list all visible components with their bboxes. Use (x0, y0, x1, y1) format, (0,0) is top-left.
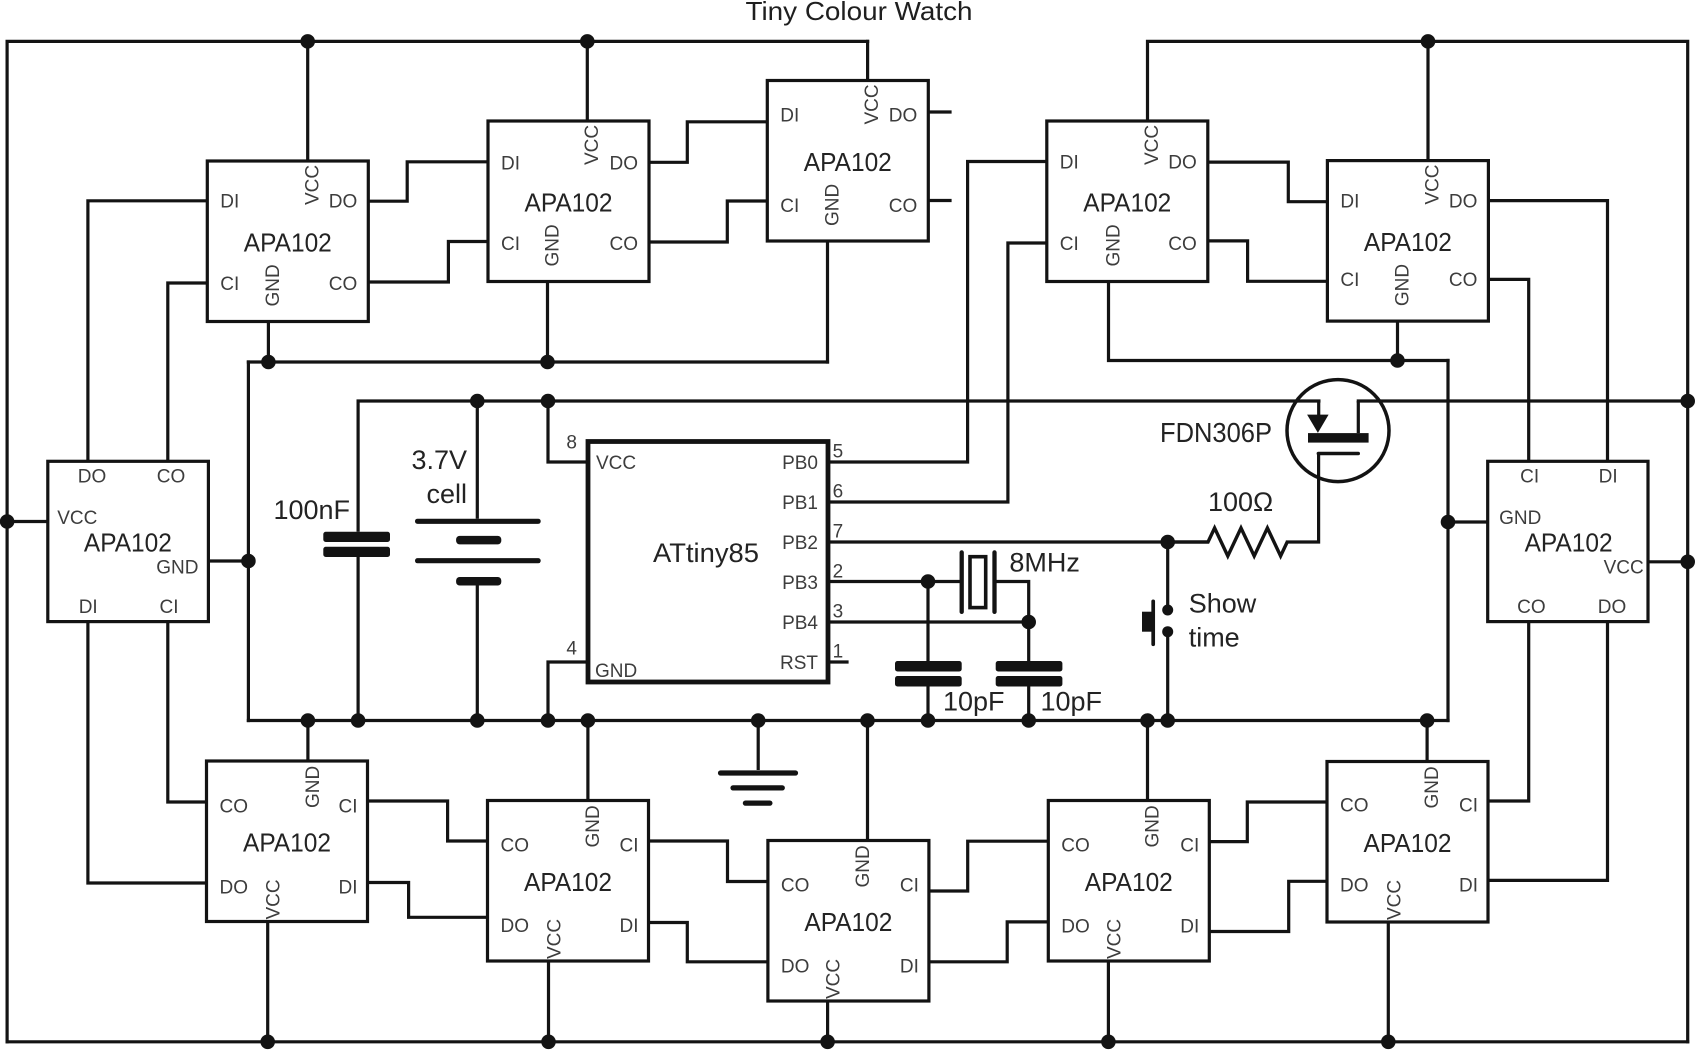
wire T5.CO to R.CI (1488, 279, 1528, 461)
svg-text:APA102: APA102 (524, 867, 612, 897)
wire R.CO to B5.CI (1488, 622, 1529, 801)
wire GND left riser (247, 362, 250, 721)
battery BT1 3.7V cell (411, 401, 540, 721)
svg-text:GND: GND (1143, 805, 1164, 847)
wire B4.CO to B3.CI (929, 841, 1048, 891)
svg-text:APA102: APA102 (243, 828, 331, 858)
svg-text:GND: GND (853, 845, 874, 887)
svg-text:DI: DI (1459, 876, 1478, 897)
svg-text:CI: CI (501, 234, 520, 255)
wire T1.CO to T2.CI (368, 242, 488, 283)
wire GND mid bus (248, 719, 1448, 722)
MCU U1 ATtiny85 (588, 442, 828, 683)
svg-text:10pF: 10pF (943, 686, 1005, 716)
svg-text:CI: CI (160, 597, 179, 618)
pushbutton SW1 Show time (1142, 588, 1257, 652)
wire T2 VCC drop (586, 41, 589, 121)
svg-text:1: 1 (833, 642, 844, 663)
wire T3.DO stub (928, 110, 950, 113)
svg-text:VCC: VCC (264, 879, 285, 919)
svg-text:CI: CI (1459, 796, 1478, 817)
capacitor C3 10pF (996, 661, 1102, 716)
svg-text:DI: DI (220, 192, 239, 213)
wire B1.DO to L.DI (88, 622, 207, 883)
svg-text:CI: CI (620, 836, 639, 857)
wire button riser (1166, 542, 1169, 605)
wire VCC mid bus right of FDN306P (1358, 399, 1687, 402)
svg-text:DI: DI (1599, 467, 1618, 488)
LED module bottom B4 (APA102) (1048, 801, 1209, 962)
wire resistor right lead to gate (1287, 455, 1318, 542)
svg-text:APA102: APA102 (84, 528, 172, 558)
svg-text:DI: DI (339, 878, 358, 899)
junction bottom rail / B1 (260, 1035, 275, 1050)
svg-text:APA102: APA102 (1085, 867, 1173, 897)
svg-text:PB3: PB3 (782, 573, 818, 594)
resistor R1 100&#937; (1168, 487, 1288, 556)
wire left box GND tap (208, 559, 248, 562)
svg-text:ATtiny85: ATtiny85 (653, 538, 759, 568)
junction GND bus / B3 (860, 713, 875, 728)
wire B2 VCC drop (547, 961, 550, 1042)
ATtiny85 pin numbers (566, 433, 843, 663)
wire 10pF right bottom lead (1027, 687, 1030, 721)
svg-text:DI: DI (620, 916, 639, 937)
svg-text:DO: DO (78, 467, 107, 488)
svg-text:PB1: PB1 (782, 493, 818, 514)
wire T5 GND drop (1396, 321, 1399, 360)
svg-text:10pF: 10pF (1041, 686, 1103, 716)
junction top rail / T5 VCC (1421, 34, 1436, 49)
svg-text:DI: DI (1180, 916, 1199, 937)
wire ATtiny85 VCC feed (548, 401, 588, 462)
svg-text:time: time (1189, 623, 1240, 653)
svg-text:100nF: 100nF (273, 495, 350, 525)
svg-text:GND: GND (583, 805, 604, 847)
LED module top-right T5 (APA102) (1327, 161, 1488, 322)
wire button lower lead (1166, 633, 1169, 721)
wire T3 GND drop (826, 241, 829, 362)
LED module bottom-middle B3 (APA102) (768, 841, 929, 1002)
junction right edge / R VCC (1680, 555, 1695, 570)
junction GND bus / T1 (261, 355, 276, 370)
svg-text:DI: DI (79, 597, 98, 618)
junction top rail / T1 VCC (300, 34, 315, 49)
svg-text:VCC: VCC (1604, 558, 1644, 579)
wire T2.CO to T3.CI (648, 201, 767, 242)
LED module bottom B2 (APA102) (488, 801, 649, 962)
wire B2 GND riser (586, 721, 589, 801)
svg-text:VCC: VCC (1423, 164, 1444, 204)
svg-text:Tiny Colour Watch: Tiny Colour Watch (746, 0, 973, 26)
wire PB0 to T4.DI (828, 162, 1047, 463)
junction PB4 / crystal / 10pF (1021, 615, 1036, 630)
wire RST stub (828, 660, 847, 663)
LED module top-left T1 (APA102) (207, 161, 368, 322)
wire B4 GND riser (1146, 721, 1149, 801)
svg-text:GND: GND (595, 661, 637, 682)
svg-text:8MHz: 8MHz (1009, 548, 1080, 578)
svg-text:CI: CI (1340, 270, 1359, 291)
junction GND bus / 10pF right (1021, 713, 1036, 728)
svg-text:DO: DO (781, 956, 810, 977)
wire R.DO to B5.DI (1488, 622, 1608, 881)
wire PB3 to crystal (828, 580, 960, 583)
wire ATtiny85 GND lead (548, 662, 588, 721)
wire T1 VCC drop (306, 41, 309, 161)
svg-text:VCC: VCC (57, 508, 97, 529)
wire VCC bottom rail (7, 1040, 1688, 1043)
svg-text:GND: GND (1422, 766, 1443, 808)
wire GND right riser (1446, 361, 1449, 721)
svg-text:CI: CI (900, 876, 919, 897)
junction bottom rail / B5 (1381, 1035, 1396, 1050)
junction GND bus / B4 (1140, 713, 1155, 728)
svg-text:APA102: APA102 (804, 147, 892, 177)
svg-text:cell: cell (426, 479, 467, 509)
svg-text:DO: DO (1340, 876, 1369, 897)
svg-text:VCC: VCC (1104, 919, 1125, 959)
svg-text:GND: GND (156, 558, 198, 579)
junction left riser / L GND (241, 554, 256, 569)
svg-text:DO: DO (889, 105, 918, 126)
wire T5 VCC drop (1426, 41, 1429, 160)
junction GND bus / 10pF left (921, 713, 936, 728)
wire 10pF left top lead (926, 582, 929, 662)
svg-text:GND: GND (303, 766, 324, 808)
svg-text:VCC: VCC (1142, 125, 1163, 165)
svg-text:GND: GND (263, 264, 284, 306)
junction VCC bus / ATtiny (541, 394, 556, 409)
svg-text:100Ω: 100Ω (1208, 487, 1273, 517)
svg-text:CI: CI (220, 274, 239, 295)
svg-text:CO: CO (1168, 234, 1197, 255)
junction GND bus / B2 (581, 713, 596, 728)
wire right box VCC tap (1648, 560, 1688, 563)
svg-text:CI: CI (339, 797, 358, 818)
LED module left L (APA102) (48, 461, 209, 621)
crystal X1 8MHz (962, 548, 1080, 612)
svg-text:APA102: APA102 (1525, 528, 1613, 558)
wire left box VCC tap (7, 520, 48, 523)
svg-text:DO: DO (1598, 597, 1627, 618)
wire PB4 wire (828, 620, 1029, 623)
wire crystal right lead (997, 582, 1029, 662)
svg-text:APA102: APA102 (244, 228, 332, 258)
svg-text:CO: CO (501, 836, 530, 857)
LED module bottom-left B1 (APA102) (207, 761, 368, 922)
junction left edge / L VCC (0, 514, 14, 529)
svg-text:PB4: PB4 (782, 613, 818, 634)
svg-text:DI: DI (1340, 191, 1359, 212)
junction GND bus / button (1160, 713, 1175, 728)
junction right edge / VCC bus (1680, 394, 1695, 409)
svg-text:APA102: APA102 (1364, 227, 1452, 257)
wire L.DO to T1.DI (88, 201, 207, 462)
svg-text:VCC: VCC (862, 84, 883, 124)
svg-text:CO: CO (157, 467, 186, 488)
junction GND bus / T5 (1390, 353, 1405, 368)
wire 10pF left bottom lead (926, 687, 929, 721)
junction PB2 / resistor / button (1160, 535, 1175, 550)
svg-text:DO: DO (329, 192, 358, 213)
svg-text:DO: DO (501, 916, 530, 937)
svg-text:6: 6 (833, 482, 844, 503)
junction GND bus / B5 (1420, 713, 1435, 728)
wire T3 VCC drop (866, 41, 869, 80)
svg-text:CI: CI (780, 196, 799, 217)
wire L.CO to T1.CI (168, 283, 208, 461)
svg-text:DO: DO (610, 153, 639, 174)
LED module top T4 (APA102) (1047, 121, 1208, 282)
capacitor C1 100nF (273, 401, 390, 721)
junction GND bus / cell (470, 713, 485, 728)
svg-text:CO: CO (1061, 836, 1090, 857)
junction right riser / R GND (1441, 515, 1456, 530)
wire B3.CO to B2.CI (649, 841, 768, 882)
svg-text:DI: DI (900, 956, 919, 977)
svg-text:CO: CO (781, 876, 810, 897)
wire VCC top rail right (1148, 41, 1688, 1041)
junction GND bus / B1 (301, 713, 316, 728)
wire GND bus upper-left (248, 360, 827, 363)
wire VCC mid bus left of FDN306P (358, 399, 1319, 402)
capacitor C2 10pF (895, 661, 1005, 716)
svg-text:5: 5 (833, 442, 844, 463)
svg-text:8: 8 (566, 433, 577, 454)
svg-text:2: 2 (833, 562, 844, 583)
junction bottom rail / B3 (820, 1035, 835, 1050)
wire B1 GND riser (306, 721, 309, 762)
junction VCC bus / cell (470, 394, 485, 409)
svg-text:DI: DI (780, 105, 799, 126)
svg-text:PB0: PB0 (782, 453, 818, 474)
wire B4.DO to B3.DI (929, 922, 1048, 962)
svg-text:CO: CO (329, 274, 358, 295)
wire B3 VCC drop (826, 1001, 829, 1042)
svg-text:3.7V: 3.7V (411, 445, 467, 475)
wire GND bus upper-right (1109, 282, 1449, 361)
LED module right R (APA102) (1488, 461, 1648, 621)
svg-text:7: 7 (833, 522, 844, 543)
svg-text:DO: DO (1168, 152, 1197, 173)
wire B3.DO to B2.DI (649, 923, 768, 962)
wire right box GND tap (1448, 520, 1488, 523)
svg-text:GND: GND (1103, 224, 1124, 266)
junction top rail / T2 VCC (580, 34, 595, 49)
wire B5.CO to B4.CI (1209, 802, 1328, 842)
svg-text:VCC: VCC (302, 165, 323, 205)
svg-text:VCC: VCC (596, 453, 636, 474)
wire T1 GND drop (267, 322, 270, 363)
svg-text:CO: CO (220, 797, 249, 818)
svg-text:APA102: APA102 (804, 907, 892, 937)
junction bottom rail / B2 (541, 1035, 556, 1050)
wire PB2 to resistor (828, 540, 1168, 543)
svg-text:Show: Show (1189, 588, 1257, 618)
transistor Q1 FDN306P (P-MOSFET) (1160, 380, 1389, 482)
wire B2.DO to B1.DI (368, 883, 488, 918)
junction GND bus / 100nF (351, 713, 366, 728)
svg-text:CI: CI (1060, 234, 1079, 255)
wire T4.DO to T5.DI (1208, 162, 1328, 202)
svg-text:RST: RST (780, 653, 818, 674)
svg-text:CO: CO (1449, 270, 1478, 291)
svg-text:DO: DO (220, 878, 249, 899)
svg-text:APA102: APA102 (1364, 828, 1452, 858)
svg-text:CO: CO (1517, 597, 1546, 618)
wire B4 VCC drop (1107, 961, 1110, 1042)
svg-text:3: 3 (833, 602, 844, 623)
svg-text:CI: CI (1520, 467, 1539, 488)
LED module top T2 (APA102) (488, 121, 649, 282)
junction PB3 / crystal / 10pF (921, 574, 936, 589)
wire T5.DO to R.DI (1488, 201, 1607, 462)
wire B5 GND riser (1425, 721, 1428, 762)
LED module top-middle T3 (APA102) (767, 81, 928, 242)
junction GND bus / ATtiny (541, 713, 556, 728)
wire PB1 to T4.CI (828, 243, 1047, 502)
svg-text:DI: DI (1060, 152, 1079, 173)
svg-text:CI: CI (1180, 836, 1199, 857)
svg-text:GND: GND (1499, 508, 1541, 529)
svg-text:DO: DO (1061, 916, 1090, 937)
svg-text:DO: DO (1449, 191, 1478, 212)
wire T2 GND drop (546, 282, 549, 363)
svg-text:GND: GND (822, 184, 843, 226)
wire B5 VCC drop (1387, 922, 1390, 1042)
svg-text:CO: CO (610, 234, 639, 255)
wire T4.CO to T5.CI (1208, 241, 1328, 281)
svg-text:VCC: VCC (824, 959, 845, 999)
wire T2.DO to T3.DI (648, 122, 767, 163)
junction bottom rail / B4 (1101, 1035, 1116, 1050)
svg-text:VCC: VCC (1384, 880, 1405, 920)
ground (721, 721, 796, 804)
junction GND bus / T2 (540, 355, 555, 370)
svg-text:CO: CO (1340, 796, 1369, 817)
wire B1 VCC drop (266, 922, 269, 1042)
svg-text:APA102: APA102 (525, 188, 613, 218)
wire B2.CO to B1.CI (368, 801, 488, 841)
wire T3.CO stub (928, 199, 950, 202)
svg-text:GND: GND (1392, 264, 1413, 306)
junction GND bus / earth (751, 713, 766, 728)
svg-text:PB2: PB2 (782, 533, 818, 554)
svg-text:DI: DI (501, 153, 520, 174)
svg-text:4: 4 (566, 638, 577, 659)
svg-text:FDN306P: FDN306P (1160, 417, 1272, 448)
wire VCC top rail left + left edge (7, 41, 868, 1041)
svg-text:GND: GND (542, 224, 563, 266)
svg-text:VCC: VCC (582, 125, 603, 165)
svg-text:CO: CO (889, 196, 918, 217)
wire B1.CO to L.CI (168, 622, 207, 802)
LED module bottom-right B5 (APA102) (1327, 762, 1488, 923)
svg-text:VCC: VCC (545, 919, 566, 959)
svg-text:APA102: APA102 (1083, 188, 1171, 218)
wire B3 GND riser (866, 721, 869, 841)
wire B5.DO to B4.DI (1209, 881, 1328, 931)
wire T1.DO to T2.DI (368, 162, 488, 201)
